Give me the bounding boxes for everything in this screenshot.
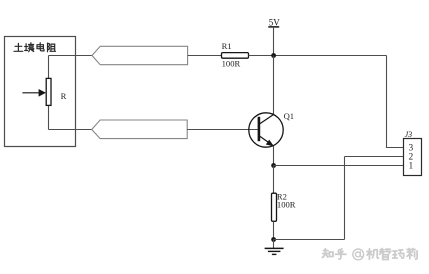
svg-text:R1: R1 xyxy=(222,41,232,51)
wire right corner down to J3 pin3 xyxy=(387,56,404,148)
玛 xyxy=(393,250,404,258)
potentiometer R body xyxy=(46,78,51,105)
乎 xyxy=(335,249,346,259)
junction dot emitter node xyxy=(271,163,276,168)
wire emitter down to junction xyxy=(273,146,275,166)
svg-text:R: R xyxy=(61,91,67,101)
wire junction down to collector xyxy=(273,56,275,115)
wire lower probe from pot xyxy=(49,129,92,131)
resistor R2 body xyxy=(272,193,277,221)
svg-text:J3: J3 xyxy=(405,130,413,139)
5V power bar xyxy=(268,26,279,28)
junction dot bottom node xyxy=(271,237,276,242)
wire R1 to top-right corner xyxy=(249,55,387,57)
svg-text:5V: 5V xyxy=(269,17,281,27)
connector J3 box xyxy=(404,139,422,176)
电 xyxy=(37,43,44,51)
wire emitter node down to R2 xyxy=(273,166,275,194)
potentiometer R bottom lead xyxy=(48,105,50,129)
wire pot top to upper probe xyxy=(49,55,93,57)
ground bar 3 xyxy=(272,253,277,255)
5V stem wire xyxy=(273,27,275,56)
upper probe electrode xyxy=(92,46,188,64)
svg-text:Q1: Q1 xyxy=(284,111,295,121)
wire upper probe to R1 xyxy=(188,55,222,57)
@ xyxy=(353,249,364,260)
soil resistance box outline xyxy=(5,37,76,147)
智 xyxy=(380,249,391,260)
transistor Q1 base bar xyxy=(258,117,261,141)
ground bar 2 xyxy=(268,250,281,252)
wire to J3 pin2 xyxy=(345,156,404,158)
transistor Q1 collector stroke xyxy=(260,114,274,123)
lower probe electrode xyxy=(92,120,188,139)
potentiometer wiper arrow xyxy=(22,92,39,94)
土 xyxy=(14,43,23,51)
svg-text:100R: 100R xyxy=(277,200,296,210)
wire emitter node to J3 pin1 xyxy=(274,165,404,167)
wire lower probe to base xyxy=(187,129,258,131)
transistor Q1 emitter arrowhead xyxy=(266,140,274,147)
label 土壤电阻 xyxy=(14,43,56,52)
resistor R1 body xyxy=(222,53,249,59)
watermark 知乎 @机智玛莉 xyxy=(322,249,417,260)
壤 xyxy=(25,43,34,52)
svg-text:100R: 100R xyxy=(222,58,241,68)
莉 xyxy=(407,249,417,260)
transistor Q1 circle xyxy=(249,113,283,147)
ground stem xyxy=(273,240,275,249)
junction dot top rail xyxy=(271,53,276,58)
wire R2 to bottom junction xyxy=(273,221,275,239)
知 xyxy=(322,249,333,258)
wire up to pin2 level xyxy=(344,157,346,240)
svg-text:1: 1 xyxy=(409,162,414,172)
阻 xyxy=(48,43,56,52)
potentiometer R top lead xyxy=(48,56,50,79)
ground bar 1 xyxy=(265,247,284,249)
transistor Q1 emitter stroke xyxy=(260,136,272,144)
机 xyxy=(367,249,379,259)
wire bottom node right xyxy=(274,239,345,241)
